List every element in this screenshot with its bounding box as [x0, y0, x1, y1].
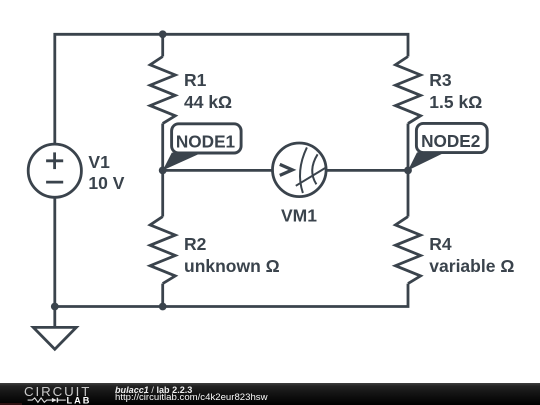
resistor R1 [150, 57, 175, 124]
wire R2 top lead from node1 [161, 170, 164, 216]
wire R1 bottom lead to node1 [161, 124, 164, 171]
svg-text:1.5 kΩ: 1.5 kΩ [429, 92, 482, 112]
svg-text:VM1: VM1 [281, 206, 317, 226]
wire top rail: left corner to R3 top lead [55, 34, 408, 144]
resistor R2 [150, 217, 175, 284]
resistor R3 [395, 57, 420, 124]
svg-text:unknown Ω: unknown Ω [184, 256, 280, 276]
svg-text:R4: R4 [429, 234, 452, 254]
wire voltmeter to node2 [326, 169, 408, 172]
wire right vertical between R3 and node2 [407, 124, 410, 171]
svg-text:V1: V1 [88, 152, 110, 172]
svg-text:NODE1: NODE1 [176, 131, 236, 151]
svg-text:R3: R3 [429, 70, 452, 90]
junction dot top of R1 [159, 30, 167, 38]
junction dot bottom of R2 [159, 303, 167, 311]
svg-text:10 V: 10 V [88, 173, 124, 193]
resistor R4 [395, 217, 420, 284]
node NODE1 callout [163, 124, 241, 171]
node NODE2 callout [408, 123, 487, 170]
svg-text:R2: R2 [184, 234, 207, 254]
wire bottom rail: left lower to R4 bottom lead [55, 197, 408, 306]
junction dot node1 [159, 167, 167, 175]
wire R2 bottom lead [161, 284, 164, 307]
wire R4 top lead from node2 [407, 170, 410, 216]
svg-text:LAB: LAB [67, 396, 92, 405]
junction dot ground [51, 303, 59, 311]
voltmeter VM1 [273, 143, 327, 197]
voltage source V1 [28, 144, 81, 197]
svg-text:44 kΩ: 44 kΩ [184, 92, 232, 112]
junction dot node2 [404, 167, 412, 175]
footer title and url [115, 386, 192, 395]
footer bar [0, 383, 540, 405]
svg-text:NODE2: NODE2 [421, 131, 480, 151]
ground [33, 307, 76, 350]
wire R1 top lead [161, 34, 164, 56]
svg-text:variable Ω: variable Ω [429, 256, 514, 276]
wire node1 to voltmeter [163, 169, 273, 172]
CircuitLab logo [0, 382, 100, 405]
svg-text:R1: R1 [184, 70, 207, 90]
